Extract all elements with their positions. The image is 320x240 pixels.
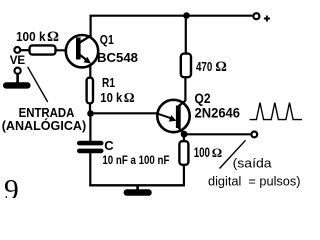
label Q1 xyxy=(100,32,114,47)
label 470 Ohm xyxy=(196,59,227,75)
wire top rail xyxy=(90,15,253,17)
svg-text:digital = pulsos): digital = pulsos) xyxy=(208,174,301,189)
label Q2 xyxy=(195,91,211,106)
wire Q1 collector riser xyxy=(89,15,91,36)
probe electrode symbol xyxy=(3,68,31,89)
capacitor C xyxy=(77,141,104,153)
wire 100 to bottom rail xyxy=(183,166,185,186)
terminal output xyxy=(251,132,257,138)
label capacitor value xyxy=(102,153,169,167)
transistor Q1 xyxy=(66,35,98,67)
wire node to capacitor xyxy=(89,114,91,142)
resistor 470 vertical xyxy=(181,54,191,78)
label 100 Ohm xyxy=(194,145,223,160)
wire dot to 100 ohm xyxy=(183,134,185,141)
label ENTRADA xyxy=(19,105,75,120)
resistor R1 vertical xyxy=(87,78,93,104)
svg-text:Q2: Q2 xyxy=(195,91,211,106)
wire output xyxy=(184,133,251,135)
svg-text:Q1: Q1 xyxy=(100,32,114,47)
label page number 9 xyxy=(4,175,19,207)
label R1 xyxy=(102,75,115,90)
svg-text:10 nF a 100 nF: 10 nF a 100 nF xyxy=(102,153,169,167)
wire pointer saida xyxy=(220,140,246,168)
svg-text:9: 9 xyxy=(4,175,19,199)
wire 470 to Q2 base2 xyxy=(184,78,186,101)
wire R1 to node xyxy=(89,104,91,114)
wire capacitor to bottom rail xyxy=(89,153,91,185)
svg-text:100Ω: 100Ω xyxy=(194,145,223,160)
terminal + positive supply xyxy=(253,13,270,21)
label ANALOGICA xyxy=(2,118,87,133)
svg-text:R1: R1 xyxy=(102,75,115,90)
label 10 kOhm xyxy=(100,90,135,105)
node junction dot left xyxy=(87,110,94,117)
label 2N2646 xyxy=(195,106,241,121)
svg-text:C: C xyxy=(104,138,114,153)
resistor 100k horizontal xyxy=(30,45,77,54)
label VE xyxy=(10,53,26,67)
label BC548 xyxy=(97,50,138,65)
wire bottom rail xyxy=(89,184,185,186)
svg-text:2N2646: 2N2646 xyxy=(195,106,241,121)
label C xyxy=(104,138,114,153)
ground xyxy=(124,185,152,196)
resistor 100 vertical xyxy=(179,141,188,165)
node junction dot top xyxy=(183,12,190,19)
label digital pulsos xyxy=(208,174,301,189)
svg-text:VE: VE xyxy=(10,53,26,67)
svg-text:(ANALÓGICA): (ANALÓGICA) xyxy=(2,118,87,133)
wire top node to 470 xyxy=(185,16,187,53)
waveform pulses xyxy=(250,103,302,120)
node junction dot output xyxy=(181,131,188,138)
wire Q1 emitter to R1 xyxy=(89,64,91,78)
wire node to Q2 emitter xyxy=(91,112,158,114)
label 100 kOhm xyxy=(16,29,59,45)
label saida xyxy=(233,155,273,170)
svg-text:100 kΩ: 100 kΩ xyxy=(16,29,59,45)
terminal VE input xyxy=(14,47,28,53)
wire pointer entrada xyxy=(28,67,48,102)
svg-text:(saída: (saída xyxy=(233,155,273,170)
svg-text:BC548: BC548 xyxy=(97,50,138,65)
svg-text:470Ω: 470Ω xyxy=(196,59,227,75)
svg-text:10 kΩ: 10 kΩ xyxy=(100,90,135,105)
transistor Q2 unijunction xyxy=(157,100,190,134)
